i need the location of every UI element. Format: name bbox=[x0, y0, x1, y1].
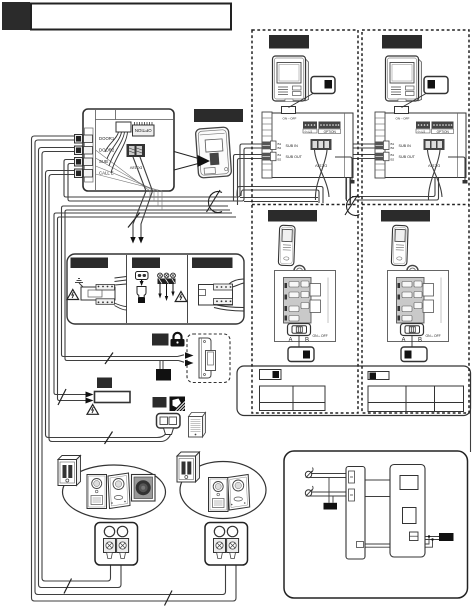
svg-text:OPTION: OPTION bbox=[135, 128, 152, 133]
svg-text:DOOR1: DOOR1 bbox=[99, 136, 115, 141]
svg-text:SUB: SUB bbox=[99, 159, 108, 164]
svg-text:DC18V: DC18V bbox=[129, 165, 142, 170]
